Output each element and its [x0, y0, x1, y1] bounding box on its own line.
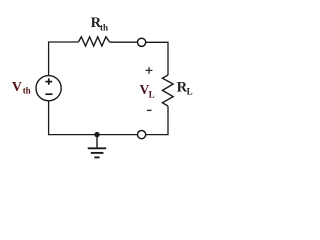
terminal (top, open circle): [138, 38, 146, 46]
minus sign inside source: [45, 93, 52, 95]
junction dot (node): [94, 132, 99, 137]
minus label at load: [147, 109, 152, 111]
ground: [96, 135, 98, 148]
svg-text:L: L: [149, 89, 155, 99]
plus label at load: [146, 67, 153, 74]
wire top-left: from source top up and right to R_th: [49, 42, 79, 76]
svg-text:th: th: [23, 86, 31, 96]
svg-text:V: V: [12, 80, 22, 95]
svg-text:L: L: [187, 86, 193, 96]
voltage source V_th (circle): [36, 76, 61, 101]
plus sign inside source: [45, 78, 52, 84]
wire: R_th to top terminal: [110, 41, 138, 43]
svg-text:th: th: [100, 23, 108, 33]
wire: top terminal to right, corner down to R_L: [146, 42, 168, 75]
wire: bottom terminal left to source bottom: [49, 101, 138, 135]
wire: R_L down and left to bottom terminal: [146, 106, 168, 135]
terminal (bottom, open circle): [138, 131, 146, 139]
resistor R_L (vertical): [162, 75, 173, 106]
resistor R_th: [78, 37, 109, 46]
